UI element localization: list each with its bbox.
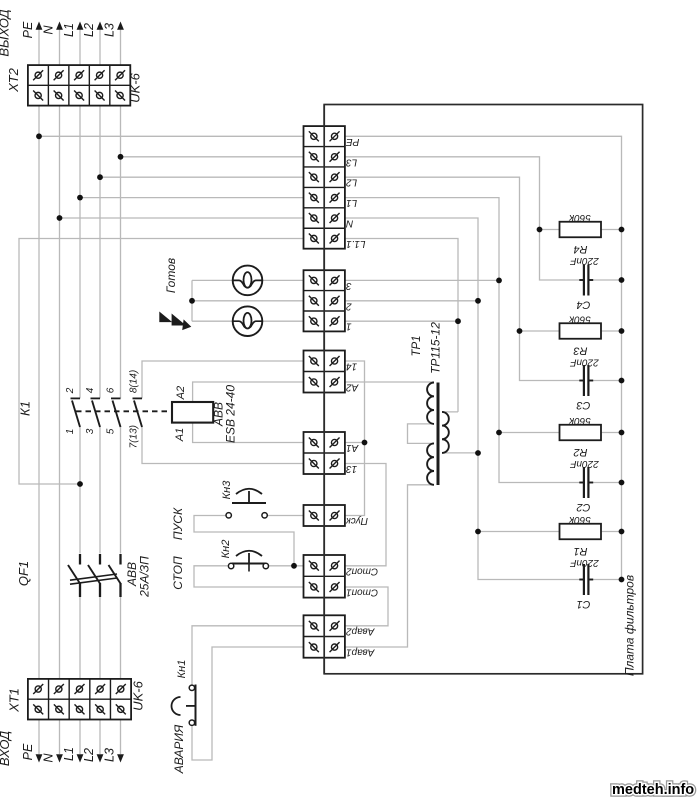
svg-text:R4: R4 [573,243,587,255]
svg-text:7(13): 7(13) [128,425,139,448]
svg-text:L2: L2 [82,748,96,762]
svg-text:L1: L1 [62,23,76,37]
svg-text:560k: 560k [568,415,591,426]
svg-text:А2: А2 [175,386,187,400]
svg-text:N: N [42,753,56,763]
svg-text:3: 3 [85,428,96,434]
svg-text:L3: L3 [103,23,117,37]
svg-text:25А/ЗП: 25А/ЗП [138,556,152,598]
svg-text:medteh.info: medteh.info [612,782,694,798]
svg-text:R3: R3 [573,345,588,357]
svg-text:Плата фильтров: Плата фильтров [623,575,637,676]
svg-text:А2: А2 [346,382,360,393]
svg-text:220nF: 220nF [569,557,599,568]
svg-text:R1: R1 [573,545,587,557]
svg-text:QF1: QF1 [16,561,31,586]
svg-text:220nF: 220nF [569,255,599,266]
svg-text:ТР1: ТР1 [411,335,423,356]
svg-text:А1: А1 [346,442,359,453]
svg-text:ESB 24-40: ESB 24-40 [224,385,238,443]
svg-text:L2: L2 [82,23,96,37]
svg-text:UK-6: UK-6 [127,72,142,102]
svg-text:6: 6 [105,387,116,393]
svg-text:UK-6: UK-6 [131,680,146,710]
svg-text:14: 14 [346,361,358,372]
svg-text:Кн2: Кн2 [220,540,232,559]
svg-text:PE: PE [346,136,360,147]
svg-text:АВАРИЯ: АВАРИЯ [172,724,186,774]
svg-text:ПУСК: ПУСК [171,507,185,540]
svg-text:XT1: XT1 [6,688,21,713]
svg-text:1: 1 [65,429,76,435]
svg-text:Авар2: Авар2 [346,625,376,636]
svg-text:C4: C4 [576,299,590,311]
svg-text:560k: 560k [568,212,591,223]
svg-text:К1: К1 [17,401,32,416]
svg-text:XT2: XT2 [6,67,21,93]
svg-text:220nF: 220nF [569,458,599,469]
svg-text:C1: C1 [576,598,590,610]
svg-text:ВЫХОД: ВЫХОД [0,9,12,56]
svg-text:4: 4 [85,387,96,393]
svg-text:L1: L1 [62,747,76,761]
svg-text:220nF: 220nF [569,357,599,368]
svg-text:Авар1: Авар1 [346,647,375,658]
svg-text:ВХОД: ВХОД [0,731,12,766]
svg-text:L1: L1 [346,197,357,208]
svg-text:L2: L2 [346,177,358,188]
svg-text:L3: L3 [346,156,358,167]
svg-text:PE: PE [21,743,35,760]
svg-text:N: N [42,25,56,35]
svg-text:Готов: Готов [164,258,178,293]
svg-text:1: 1 [346,321,352,332]
svg-text:А1: А1 [174,428,186,442]
svg-text:5: 5 [105,428,116,434]
svg-text:2: 2 [346,300,353,311]
svg-text:Стоп2: Стоп2 [346,565,379,576]
svg-text:560k: 560k [568,314,591,325]
svg-text:2: 2 [65,387,76,394]
svg-text:8(14): 8(14) [128,370,139,393]
svg-text:L3: L3 [103,748,117,762]
svg-text:Кн1: Кн1 [176,660,188,679]
svg-text:3: 3 [346,280,352,291]
svg-text:PE: PE [21,21,35,38]
svg-text:N: N [345,218,353,229]
svg-text:C2: C2 [576,501,590,513]
svg-text:L1.1: L1.1 [346,238,365,249]
svg-text:ТР115-12: ТР115-12 [429,322,443,374]
svg-text:13: 13 [346,463,358,474]
svg-text:Стоп1: Стоп1 [346,587,378,598]
svg-text:R2: R2 [573,446,587,458]
svg-text:C3: C3 [576,399,591,411]
svg-text:Кн3: Кн3 [221,480,233,500]
svg-text:СТОП: СТОП [171,556,185,590]
svg-text:Пуск: Пуск [345,515,368,526]
svg-text:560k: 560k [568,514,591,525]
